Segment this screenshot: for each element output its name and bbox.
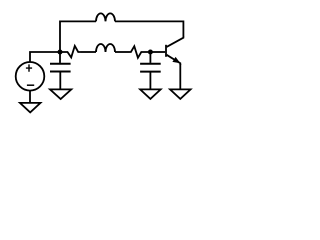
wire xyxy=(149,52,151,63)
wire xyxy=(115,51,130,53)
node junction1 xyxy=(58,50,63,55)
transistor Q1 xyxy=(166,37,183,65)
resistor R2 xyxy=(130,46,149,58)
ground xyxy=(170,89,191,99)
node junction2 xyxy=(148,50,153,55)
wire xyxy=(59,52,61,63)
wire xyxy=(30,52,58,62)
resistor R1 xyxy=(60,46,81,58)
voltage source V1 xyxy=(16,62,45,91)
capacitor C2 xyxy=(140,64,161,72)
wire xyxy=(29,91,31,103)
wire xyxy=(115,21,183,37)
ground xyxy=(50,89,71,99)
wire xyxy=(60,21,96,52)
wire xyxy=(81,51,96,53)
ground xyxy=(140,89,161,99)
wire xyxy=(59,72,61,90)
wire xyxy=(179,64,181,89)
wire xyxy=(149,72,151,90)
ground xyxy=(20,103,41,113)
capacitor C1 xyxy=(50,64,71,72)
inductor L2 xyxy=(96,44,115,52)
wire xyxy=(150,51,165,53)
inductor L1 xyxy=(96,13,115,21)
